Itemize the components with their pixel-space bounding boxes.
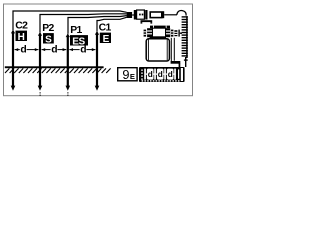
rho-E mode box xyxy=(118,68,137,81)
svg-text:9: 9 xyxy=(122,67,129,82)
instrument knob top xyxy=(150,26,170,29)
lead to coil xyxy=(164,14,177,16)
ground hatching xyxy=(5,68,111,73)
svg-text:E: E xyxy=(130,72,135,81)
stake C2 xyxy=(11,30,15,34)
left terminal ear xyxy=(144,30,147,37)
svg-text:C2: C2 xyxy=(15,21,28,32)
strap bar above instrument xyxy=(141,20,153,22)
plug tip xyxy=(162,11,164,18)
svg-text:d: d xyxy=(158,70,163,79)
dimension d between C2 and P2 xyxy=(15,49,39,51)
coil top curl xyxy=(177,10,186,15)
wire C2 xyxy=(13,11,127,30)
instrument body xyxy=(146,39,169,61)
display left dots xyxy=(141,69,142,80)
stake P1 xyxy=(66,33,70,37)
connector body xyxy=(137,10,145,19)
coil tail to display xyxy=(184,59,188,60)
terminal box S xyxy=(43,33,54,43)
knob left knurl xyxy=(147,28,152,37)
cord plug into right ear xyxy=(174,30,177,36)
display right thin bar xyxy=(178,69,179,78)
connector collar xyxy=(134,10,137,20)
svg-text:d: d xyxy=(51,44,57,55)
svg-text:d: d xyxy=(168,70,173,79)
svg-text:d: d xyxy=(148,70,153,79)
stake P2 xyxy=(38,32,42,36)
display bottom dotted row xyxy=(142,80,180,81)
test lead from instrument down to display xyxy=(170,38,172,62)
terminal box E xyxy=(100,33,111,43)
knob right knurl xyxy=(166,28,171,37)
svg-text:d: d xyxy=(20,44,26,55)
dotted tick under stake P1 xyxy=(67,92,68,96)
display bar 1 xyxy=(144,69,146,80)
svg-text:E: E xyxy=(103,34,110,45)
display cell d 2 xyxy=(156,69,165,80)
neck under knob xyxy=(150,37,166,39)
stake C1 xyxy=(95,31,99,35)
wire C1 xyxy=(97,17,127,31)
svg-text:H: H xyxy=(18,32,25,43)
display cell d 3 xyxy=(166,69,175,80)
connector collar 2 xyxy=(145,10,147,20)
cable sleeve xyxy=(127,12,133,18)
coil (spiral cable) xyxy=(182,16,188,58)
display bar 3 xyxy=(164,69,166,80)
terminal box ES xyxy=(70,35,88,45)
svg-text:C1: C1 xyxy=(99,23,112,34)
dotted tick under stake P2 xyxy=(40,92,41,96)
dimension d between P1 and C1 xyxy=(69,49,95,51)
display bar 2 xyxy=(154,69,156,80)
wire P2 xyxy=(40,14,127,33)
display panel xyxy=(139,67,185,82)
svg-text:P1: P1 xyxy=(70,25,82,36)
dimension d between P2 and P1 xyxy=(42,49,67,51)
plug barrel xyxy=(150,12,162,18)
knob face xyxy=(153,28,166,37)
border frame xyxy=(4,4,193,96)
cable lead xyxy=(132,14,134,16)
display right wide bar xyxy=(181,68,183,81)
wire P1 xyxy=(68,16,127,34)
terminal box H xyxy=(16,31,28,41)
ground line xyxy=(5,66,104,68)
display bar 4 xyxy=(174,69,176,80)
right terminal ear xyxy=(171,30,174,37)
svg-text:P2: P2 xyxy=(42,23,54,34)
display cell d 1 xyxy=(146,69,155,80)
svg-text:d: d xyxy=(80,44,86,55)
